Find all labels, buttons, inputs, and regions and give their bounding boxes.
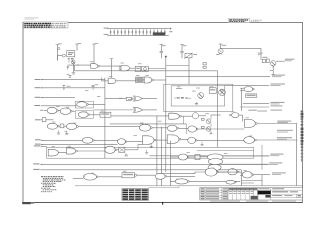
wire into IB1 bbox=[105, 98, 126, 100]
input label J2-2 bbox=[35, 139, 41, 140]
supply stub R3 bbox=[76, 44, 78, 51]
wire U8A out bbox=[152, 127, 167, 129]
wire OUT2 bbox=[256, 139, 297, 141]
wire row y124 bbox=[110, 123, 186, 125]
resistor block RB3 bbox=[202, 118, 205, 120]
dark cell below black field bbox=[265, 195, 270, 198]
diode array D1-D16 elements bbox=[110, 29, 166, 35]
ground cap under U7A bbox=[58, 130, 60, 133]
wire U30B out bbox=[142, 109, 157, 111]
vertical x262 upper bbox=[261, 145, 263, 170]
wire Q1 collector to top-right bbox=[221, 47, 261, 49]
wire U2A out bbox=[130, 67, 136, 69]
ground stub under Q2 bbox=[72, 65, 74, 73]
timing chain enclosure box bbox=[47, 147, 254, 158]
gate U21A bbox=[178, 154, 187, 160]
resistor chain in box bbox=[177, 97, 180, 98]
label Y76 bbox=[272, 75, 285, 76]
vertical bus x161 bbox=[160, 127, 162, 186]
label U26A out bbox=[272, 172, 286, 173]
wire pot row bbox=[166, 65, 189, 67]
wire DL2 out bbox=[137, 174, 155, 176]
wire U6A-U6B bbox=[59, 110, 61, 112]
sheet number box bbox=[296, 194, 302, 197]
crystal oscillator Y1 box bbox=[67, 51, 75, 57]
title block frame bbox=[258, 188, 303, 200]
fold tick mark bbox=[162, 202, 163, 205]
input label J2-3 bbox=[35, 144, 41, 145]
wire U21 chain bbox=[170, 156, 178, 158]
right strip spine line bbox=[300, 110, 302, 162]
wire U22 outs bbox=[223, 155, 269, 157]
vertical bus right x296 bbox=[296, 124, 298, 186]
signature grid table bbox=[228, 188, 258, 200]
diode chain right terminal bbox=[169, 28, 172, 30]
inverter U8C bbox=[188, 126, 197, 132]
vertical bus x217 bbox=[217, 71, 219, 148]
supply stub R2 bbox=[56, 45, 58, 61]
and gate U17A bbox=[244, 119, 255, 127]
wire Q5 out bbox=[276, 60, 285, 62]
wire U31A out bbox=[95, 139, 118, 141]
input wire net D bbox=[41, 105, 77, 107]
wires into U19A bbox=[240, 87, 244, 89]
buffer U16A bbox=[232, 113, 239, 118]
wire U15A out bbox=[181, 115, 192, 117]
transistor Q1 bbox=[218, 49, 223, 54]
inverter box IB1 bbox=[126, 97, 131, 100]
wire U8B out bbox=[179, 127, 188, 129]
oscillator input node circle bbox=[62, 54, 65, 57]
wire U32A out bbox=[127, 141, 143, 143]
junction dot x165 bbox=[165, 56, 167, 58]
nand gate U12A bbox=[167, 135, 179, 144]
buffer U13A bbox=[188, 137, 196, 143]
input wire net C bbox=[41, 97, 75, 99]
wire U1A output bbox=[100, 65, 121, 67]
nand gate U4A bbox=[144, 77, 152, 83]
wire channel y156 bbox=[150, 155, 270, 157]
nor gate U6A bbox=[47, 107, 57, 113]
decoupling capacitor C15 bbox=[160, 44, 162, 51]
wire Q3 to U16A bbox=[211, 114, 221, 116]
cap marks near U13A bbox=[201, 142, 203, 144]
transistor Q4 bbox=[206, 127, 211, 132]
wire out y103 bbox=[243, 103, 269, 105]
nor gate U6B bbox=[60, 108, 71, 114]
vertical feed to U1A bbox=[93, 62, 95, 65]
input label J2-1 bbox=[35, 119, 41, 120]
inverter U8B bbox=[167, 125, 177, 131]
wire U5A out bbox=[88, 103, 105, 105]
transistor Q5 bbox=[271, 61, 276, 66]
faint stamp text above revision table bbox=[25, 16, 39, 19]
ground cap mid bbox=[66, 131, 68, 134]
and gate U2A bbox=[121, 65, 130, 70]
bottom border emphasis bbox=[23, 201, 303, 203]
tick on x111 bbox=[110, 58, 114, 60]
nand gate U15A bbox=[169, 113, 180, 119]
gate U14A bbox=[78, 112, 88, 118]
nand gate U9B bbox=[67, 148, 76, 154]
inverter U32A bbox=[118, 139, 126, 145]
wire channel y174 bbox=[160, 173, 195, 175]
transistor Q3 bbox=[206, 119, 211, 124]
wire DL1 out bbox=[148, 68, 166, 70]
vertical bus x111 bbox=[110, 59, 112, 81]
bottom margin text row bbox=[210, 200, 240, 203]
revision table box bbox=[24, 22, 69, 28]
drawing code suffix text bbox=[251, 19, 262, 22]
wire U26A out bbox=[254, 174, 270, 176]
wire U10A out bbox=[117, 149, 119, 151]
input wire net H bbox=[41, 145, 47, 147]
input wire net G bbox=[41, 144, 118, 146]
driver parts bbox=[262, 59, 265, 62]
wire channel y172 bbox=[195, 171, 240, 173]
input label J1-3 bbox=[35, 97, 41, 98]
label Y85 bbox=[271, 84, 286, 85]
delay box DL2 bbox=[122, 173, 134, 178]
wire U3A out bbox=[116, 80, 136, 82]
labels in box bbox=[176, 88, 182, 89]
vertical x241 bottom bbox=[240, 170, 242, 186]
wire U20B out bbox=[167, 175, 195, 177]
gate U25A bbox=[175, 179, 188, 184]
wire long y164 bbox=[40, 163, 268, 165]
wire osc left bbox=[57, 55, 62, 57]
vertical bus x165 bbox=[165, 57, 167, 173]
wire U11A out bbox=[156, 139, 167, 141]
resistor R5 cluster bbox=[68, 58, 70, 59]
single-shot SS1 boxes bbox=[136, 77, 145, 80]
supply label near V line bbox=[258, 53, 263, 54]
inverter U31A bbox=[82, 137, 93, 143]
wire U7B out long bbox=[78, 125, 139, 127]
gate U23A bbox=[228, 169, 237, 175]
wire Q4 down bbox=[210, 131, 212, 133]
enclosure box around U14A bbox=[75, 111, 93, 118]
cap marks 2 bbox=[146, 150, 148, 153]
input label J1-2 bbox=[35, 87, 41, 88]
transistor Q6 bbox=[198, 93, 204, 99]
bus rail top of diode chain bbox=[109, 28, 169, 30]
capacitor C20 bbox=[92, 84, 95, 86]
or gate U30B bbox=[134, 107, 143, 112]
gate U24A bbox=[205, 168, 217, 176]
nand gate U7A bbox=[47, 123, 57, 129]
node circle N1 bbox=[192, 113, 198, 119]
label ch164 bbox=[269, 162, 282, 163]
parts list box line bbox=[149, 187, 180, 189]
gate U20B bbox=[155, 173, 165, 179]
vertical bus x170 bbox=[169, 141, 171, 186]
nand gate U1A bbox=[91, 64, 98, 69]
label ch156 bbox=[270, 154, 283, 155]
gate U20A bbox=[83, 174, 96, 181]
input wire net E bbox=[41, 119, 42, 121]
connector box CB1 bbox=[42, 118, 46, 122]
label OUT2 bbox=[277, 137, 292, 138]
drawing code label box bbox=[228, 19, 250, 23]
box U21B bbox=[195, 154, 200, 159]
wire U7A-U7B bbox=[59, 125, 60, 127]
input label bottom1 bbox=[33, 163, 39, 164]
wire U25A out bbox=[189, 180, 240, 182]
one-shot enclosure box bbox=[171, 86, 224, 106]
supply stub R4 bbox=[93, 44, 95, 63]
drawing code dark text bbox=[229, 19, 248, 20]
wire U12A out bbox=[181, 138, 188, 140]
notes text block bbox=[41, 176, 65, 192]
wire mid out y85 bbox=[225, 84, 270, 86]
polarized capacitor C19 bbox=[63, 85, 65, 87]
module box MB3 bbox=[209, 88, 216, 94]
wire U14A out bbox=[90, 114, 100, 116]
transistor Q7 bbox=[219, 89, 226, 96]
wire out y107 bbox=[240, 106, 269, 108]
one-shot outer enclosure bbox=[164, 84, 233, 111]
wire U20A out bbox=[98, 176, 122, 178]
wire N1 out bbox=[199, 115, 206, 117]
reference designator text C-pack bbox=[153, 32, 166, 35]
stub to bus bbox=[74, 65, 76, 71]
label Y107 bbox=[271, 105, 283, 106]
big or gate U22A bbox=[207, 154, 223, 160]
wire down to output driver bbox=[260, 48, 262, 59]
input label J1-1 bbox=[35, 79, 41, 80]
bus rail bottom of diode chain bbox=[109, 35, 169, 37]
and gate U11A bbox=[143, 136, 154, 145]
wire U13A out bbox=[197, 139, 244, 141]
module box MB1 bbox=[100, 112, 111, 117]
inverter U8A bbox=[139, 124, 150, 131]
wire into U20A bbox=[73, 177, 84, 179]
input label bottom2 bbox=[33, 169, 39, 170]
wire MB1 out bbox=[111, 115, 169, 117]
wire into U25A bbox=[170, 180, 175, 182]
wire U8C out bbox=[198, 128, 244, 130]
capacitor C21 bbox=[196, 102, 198, 104]
filter box FB1 bbox=[60, 124, 64, 128]
label left of y111 bbox=[248, 110, 256, 111]
title block top text bbox=[259, 188, 270, 189]
stub down x183 bbox=[183, 116, 185, 124]
and gate U3A bbox=[108, 78, 116, 84]
diode chain left terminal labels bbox=[104, 28, 109, 29]
nand gate U7B bbox=[67, 123, 77, 129]
and gate U9A bbox=[48, 149, 58, 156]
delay module DL1 bbox=[135, 66, 141, 71]
potentiometer R10 bbox=[185, 53, 192, 57]
trim parts bbox=[203, 63, 206, 65]
label Y111 bbox=[271, 110, 283, 111]
nor gate U19A bbox=[244, 87, 253, 92]
inner line of enclosure bbox=[197, 149, 254, 151]
wire U16A out bbox=[239, 114, 243, 116]
wire into U3A bbox=[102, 80, 109, 82]
input wire net F bbox=[41, 139, 82, 141]
wire U9B out bbox=[78, 150, 105, 152]
wire U30A out bbox=[142, 98, 157, 100]
long bus wire y70 bbox=[75, 70, 218, 72]
wire out y111 bbox=[257, 110, 267, 112]
flat gate U27A bbox=[226, 180, 235, 184]
wire run list table bbox=[122, 189, 149, 201]
wire long y170 bbox=[40, 169, 241, 171]
wire into U30B bbox=[93, 109, 133, 111]
wire U9A-U9B bbox=[58, 152, 66, 154]
wire osc output row bbox=[67, 64, 90, 66]
capacitor C18 to ground bbox=[69, 75, 71, 78]
shaper gate U10A bbox=[105, 146, 115, 153]
wire into U6A bbox=[44, 110, 47, 112]
buffer gate U5A bbox=[77, 102, 87, 107]
vertical bus x156 bbox=[156, 116, 158, 186]
module box MB2 bbox=[246, 94, 257, 97]
vertical drawing number strip bbox=[301, 111, 304, 161]
stub down x186 bbox=[185, 124, 187, 134]
wire OUT1 bbox=[257, 123, 297, 125]
sheet border frame bbox=[23, 22, 303, 202]
input wire net A bbox=[41, 79, 105, 81]
input label J1-4 bbox=[34, 105, 40, 106]
transistor Q2 bbox=[71, 60, 75, 64]
wire mid out y76 bbox=[166, 76, 270, 78]
wire U24A out bbox=[219, 171, 241, 173]
corner zone smudge bbox=[22, 202, 31, 204]
revision table entries text bbox=[24, 23, 66, 28]
xtal box X2 bbox=[119, 147, 125, 152]
label OUT1 bbox=[277, 121, 291, 122]
label Y103 bbox=[271, 102, 285, 103]
wires into U26A bbox=[240, 172, 242, 174]
label CLK OUT bbox=[285, 59, 295, 60]
title block texts bbox=[272, 188, 284, 189]
wire U4A out bbox=[154, 79, 166, 81]
part number black field bbox=[258, 191, 272, 195]
nand gate U18A bbox=[244, 137, 255, 144]
input label J2-4 bbox=[34, 145, 41, 146]
or gate U30A bbox=[134, 96, 143, 101]
drafting standards table bbox=[200, 188, 228, 200]
feedback wires U26A bbox=[241, 180, 262, 182]
wire Q5 emitter bbox=[272, 66, 274, 74]
bias network vertical bbox=[220, 44, 222, 49]
enclosure box around U5A bbox=[75, 101, 93, 108]
capacitor C17 bbox=[67, 65, 69, 67]
vertical bus x105 bbox=[104, 78, 106, 159]
title block field lines bbox=[271, 189, 303, 191]
input wire net B bbox=[41, 87, 105, 89]
label row 2 bbox=[277, 130, 293, 131]
component reference labels bbox=[52, 61, 253, 179]
title area top line bbox=[75, 185, 303, 187]
latch gate U26A bbox=[242, 171, 252, 178]
cap marks under center bbox=[150, 144, 152, 147]
wire IB1 to U30A bbox=[132, 98, 135, 100]
decoupling capacitor C16 bbox=[181, 44, 183, 51]
